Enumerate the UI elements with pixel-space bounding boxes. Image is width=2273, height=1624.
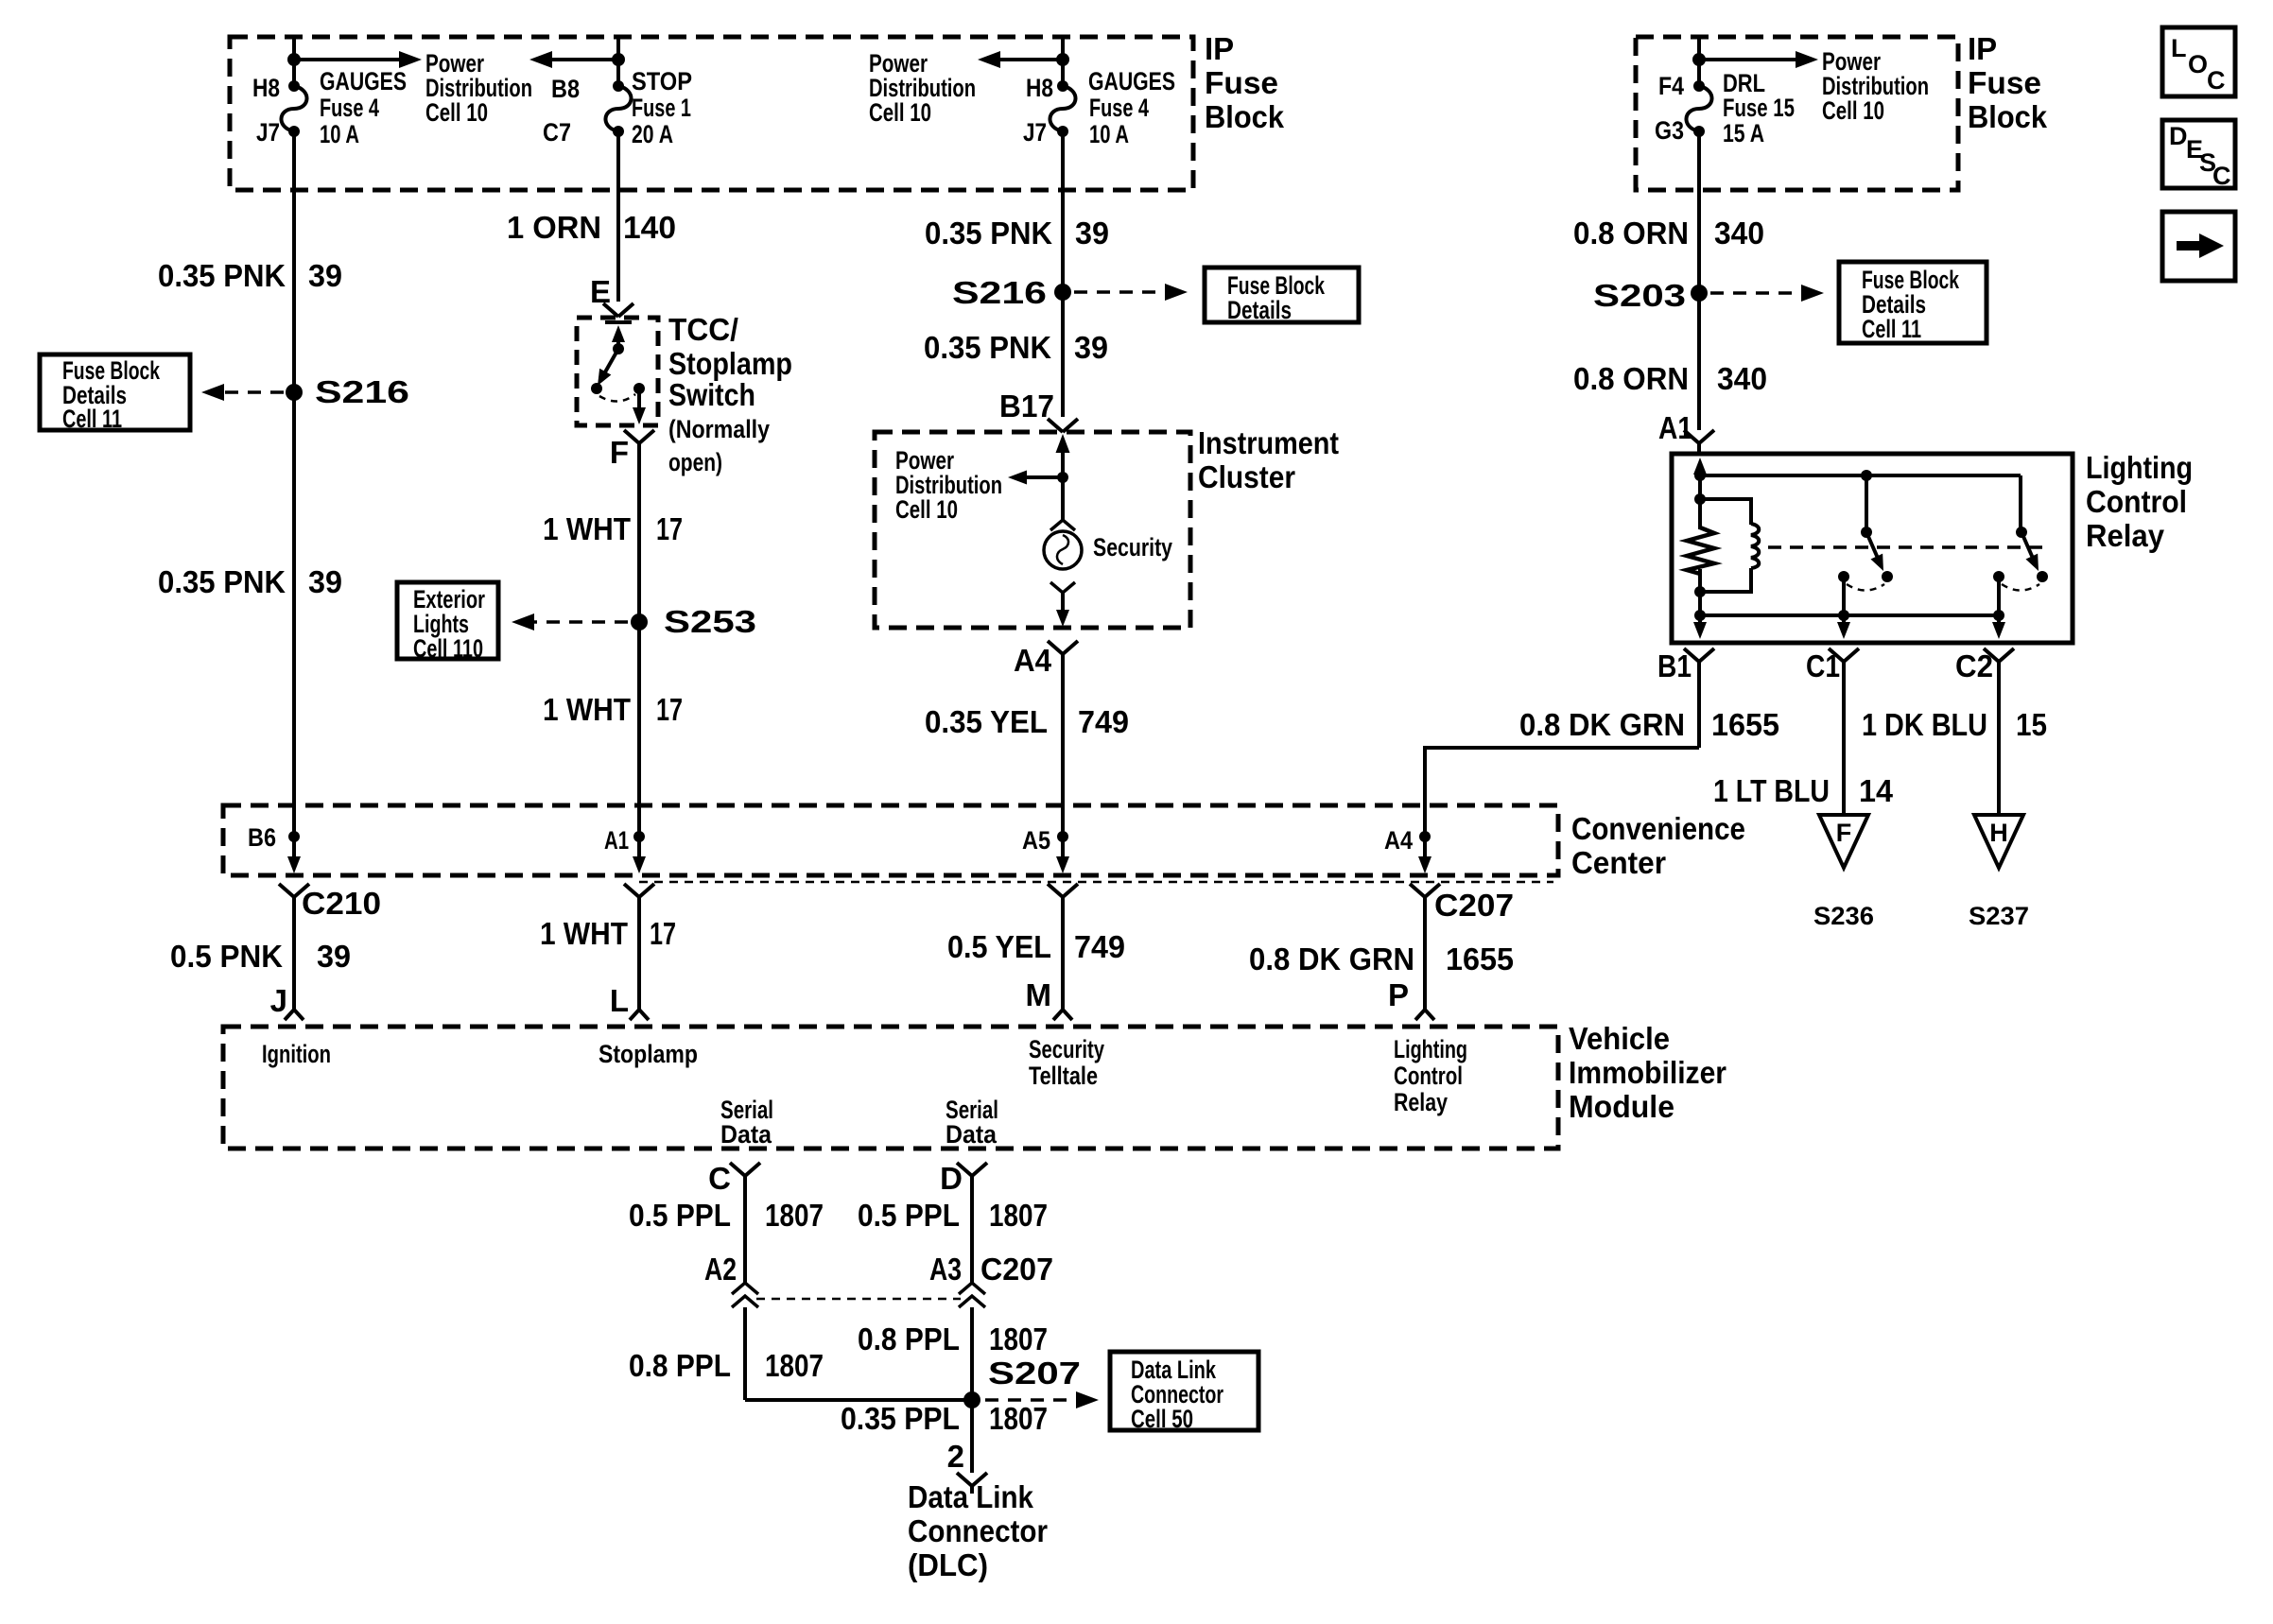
svg-text:TCC/: TCC/ xyxy=(668,312,738,347)
wire C2 1 DK BLU 15 to S237 xyxy=(1997,662,2001,815)
svg-text:M: M xyxy=(1026,977,1052,1012)
fuse GAUGES Fuse 4 10A (left) pins H8/J7 xyxy=(288,80,300,92)
switch output arrow down xyxy=(637,389,641,417)
box Fuse Block Details (mid) xyxy=(1205,268,1359,322)
svg-text:Fuse 1: Fuse 1 xyxy=(632,94,691,122)
switch right contact dot xyxy=(633,383,645,394)
svg-text:0.35 PNK: 0.35 PNK xyxy=(158,258,286,293)
svg-text:A2: A2 xyxy=(704,1252,737,1287)
svg-text:B1: B1 xyxy=(1657,648,1692,683)
svg-text:15: 15 xyxy=(2016,707,2047,742)
svg-text:0.35 PNK: 0.35 PNK xyxy=(158,564,286,599)
Instrument Cluster dashed box xyxy=(875,432,1190,628)
svg-text:C: C xyxy=(2207,66,2226,95)
node W4 top junction xyxy=(1692,53,1706,66)
svg-text:17: 17 xyxy=(656,692,683,727)
svg-text:L: L xyxy=(610,983,629,1018)
svg-text:0.8 ORN: 0.8 ORN xyxy=(1573,361,1689,396)
svg-text:1 ORN: 1 ORN xyxy=(507,210,601,245)
Vehicle Immobilizer Module dashed box xyxy=(223,1027,1558,1149)
svg-text:0.8 PPL: 0.8 PPL xyxy=(629,1348,731,1383)
svg-text:1655: 1655 xyxy=(1446,942,1514,976)
svg-text:(DLC): (DLC) xyxy=(908,1547,988,1582)
relay left wire xyxy=(1698,473,1702,529)
svg-text:0.8 ORN: 0.8 ORN xyxy=(1573,216,1689,251)
svg-text:Block: Block xyxy=(1205,99,1285,134)
wire W2 1 ORN 140 segment xyxy=(616,131,620,302)
relay output arrows down xyxy=(1698,615,1702,631)
connector C1 xyxy=(1829,648,1859,662)
svg-text:39: 39 xyxy=(1075,216,1109,251)
wire W2 top segment xyxy=(616,37,620,86)
svg-text:0.35 PNK: 0.35 PNK xyxy=(925,216,1052,251)
wire arrow to Power Distribution Cell 10 (W4) xyxy=(1699,58,1797,61)
svg-text:15 A: 15 A xyxy=(1723,119,1764,147)
wire W3 0.35 PNK segment xyxy=(1061,131,1065,417)
box Fuse Block Details Cell 11 (right) xyxy=(1839,262,1987,343)
svg-text:Fuse 4: Fuse 4 xyxy=(320,94,379,122)
svg-text:Vehicle: Vehicle xyxy=(1569,1021,1670,1056)
svg-text:C1: C1 xyxy=(1806,648,1840,683)
wire W3 top segment xyxy=(1061,37,1065,86)
svg-text:Lighting: Lighting xyxy=(1394,1035,1467,1063)
svg-text:F: F xyxy=(610,435,629,470)
svg-text:C207: C207 xyxy=(980,1252,1053,1287)
coil branch xyxy=(1700,499,1751,525)
svg-text:Cell 10: Cell 10 xyxy=(425,98,488,127)
svg-text:Instrument: Instrument xyxy=(1198,425,1339,460)
svg-text:Connector: Connector xyxy=(908,1513,1048,1548)
svg-text:17: 17 xyxy=(656,511,683,546)
svg-text:0.5 YEL: 0.5 YEL xyxy=(947,929,1051,964)
svg-text:Telltale: Telltale xyxy=(1029,1062,1098,1090)
relay switch2 pivot xyxy=(2016,527,2027,538)
svg-text:Stoplamp: Stoplamp xyxy=(599,1040,698,1068)
resistor (relay winding suppression) xyxy=(1687,527,1714,574)
connector line C207 thin dashed xyxy=(639,881,1553,884)
svg-text:A4: A4 xyxy=(1014,643,1052,678)
node W3 top junction xyxy=(1056,53,1069,66)
connector A4 xyxy=(1048,641,1078,654)
wire W1 through convenience center pin B6 xyxy=(292,805,296,866)
wire W4 top segment xyxy=(1697,37,1701,86)
svg-text:Fuse 4: Fuse 4 xyxy=(1089,94,1149,122)
svg-text:Control: Control xyxy=(2086,484,2187,519)
TCC/Stoplamp Switch dashed box xyxy=(577,318,658,425)
svg-text:39: 39 xyxy=(308,258,342,293)
svg-text:STOP: STOP xyxy=(632,67,692,95)
wire W2 pin A1 xyxy=(637,805,641,866)
connector A2 double chevron xyxy=(732,1283,758,1294)
Convenience Center dashed box xyxy=(223,805,1558,875)
svg-text:B8: B8 xyxy=(551,75,580,103)
connector F xyxy=(624,430,654,443)
switch arrow up to contact xyxy=(616,332,620,349)
switch top contact bar xyxy=(605,320,632,324)
svg-text:(Normally: (Normally xyxy=(668,415,770,443)
connector M chevron xyxy=(1048,884,1078,897)
svg-text:B6: B6 xyxy=(248,823,276,852)
svg-text:IP: IP xyxy=(1205,31,1234,66)
svg-text:Relay: Relay xyxy=(1394,1088,1448,1116)
svg-text:Data Link: Data Link xyxy=(908,1479,1034,1514)
svg-text:S253: S253 xyxy=(664,604,756,639)
switch travel dashed arc xyxy=(599,394,635,402)
svg-text:J7: J7 xyxy=(1023,118,1047,147)
relay input arrow up xyxy=(1693,458,1707,475)
splice S253 on W2 xyxy=(631,613,648,631)
wire W1 from fuse to convenience center xyxy=(292,131,296,805)
svg-text:749: 749 xyxy=(1078,704,1129,739)
svg-text:0.8 DK GRN: 0.8 DK GRN xyxy=(1249,942,1414,976)
svg-text:open): open) xyxy=(668,448,722,476)
svg-text:Cell 50: Cell 50 xyxy=(1131,1405,1193,1433)
connector P chevron xyxy=(1410,884,1440,897)
svg-text:1807: 1807 xyxy=(989,1198,1048,1233)
svg-text:GAUGES: GAUGES xyxy=(1088,67,1175,95)
svg-text:C: C xyxy=(708,1161,731,1196)
arrow up into B17 inside cluster xyxy=(1061,441,1065,477)
svg-text:Security: Security xyxy=(1093,533,1172,561)
connector A3 double chevron xyxy=(959,1283,985,1294)
svg-text:140: 140 xyxy=(623,210,676,245)
svg-text:39: 39 xyxy=(308,564,342,599)
switch blade xyxy=(602,349,618,377)
svg-text:D: D xyxy=(2169,122,2188,150)
svg-text:340: 340 xyxy=(1714,216,1764,251)
LOC legend box xyxy=(2162,27,2235,96)
svg-text:C2: C2 xyxy=(1955,648,1993,683)
Security telltale lamp xyxy=(1044,531,1082,569)
svg-text:Cell 10: Cell 10 xyxy=(869,98,931,127)
svg-text:C7: C7 xyxy=(543,118,571,147)
node W1 top junction xyxy=(287,53,301,66)
dashed arrow S253 to Exterior Lights xyxy=(526,620,628,624)
fuse GAUGES Fuse 4 10A (mid) pins H8/J7 xyxy=(1057,80,1068,92)
IP Fuse Block (left) dashed box xyxy=(230,37,1193,190)
svg-text:G3: G3 xyxy=(1655,116,1684,145)
svg-text:S236: S236 xyxy=(1813,902,1874,930)
svg-text:H: H xyxy=(1989,819,2008,847)
svg-text:0.8 DK GRN: 0.8 DK GRN xyxy=(1519,707,1685,742)
switch left contact dot xyxy=(591,383,602,394)
wire W3 pin A5 xyxy=(1061,805,1065,866)
svg-text:749: 749 xyxy=(1074,929,1125,964)
wire arrow to Power Distribution Cell 10 (W3) xyxy=(993,58,1063,61)
svg-text:1 WHT: 1 WHT xyxy=(543,692,631,727)
svg-text:J7: J7 xyxy=(256,118,280,147)
splice S207 xyxy=(963,1391,980,1408)
ground-style triangle H (S237) xyxy=(1974,815,2023,868)
arrow down out of cluster xyxy=(1061,593,1065,619)
wire D down to DLC xyxy=(970,1307,974,1473)
arrow left to Power Distribution (cluster) xyxy=(1023,475,1063,479)
svg-text:GAUGES: GAUGES xyxy=(320,67,407,95)
fuse DRL Fuse 15 15A pins F4/G3 xyxy=(1693,80,1705,92)
svg-text:B17: B17 xyxy=(999,389,1054,423)
svg-text:1 WHT: 1 WHT xyxy=(543,511,631,546)
svg-text:Module: Module xyxy=(1569,1089,1674,1124)
Lighting Control Relay box xyxy=(1672,454,2073,643)
svg-text:1807: 1807 xyxy=(765,1198,824,1233)
svg-text:IP: IP xyxy=(1968,31,1997,66)
dashed connector line A2-A3 xyxy=(756,1298,961,1301)
node cluster junction xyxy=(1057,472,1068,483)
box Data Link Connector Cell 50 xyxy=(1110,1352,1258,1430)
svg-text:D: D xyxy=(940,1161,963,1196)
svg-text:20 A: 20 A xyxy=(632,120,673,148)
connector C xyxy=(730,1163,760,1176)
fuse STOP Fuse 1 20A pins B8/C7 xyxy=(613,80,624,92)
svg-text:0.35 YEL: 0.35 YEL xyxy=(925,704,1048,739)
wire B1 elbow to A4 xyxy=(1425,748,1699,805)
svg-text:H8: H8 xyxy=(252,74,280,102)
svg-text:Convenience: Convenience xyxy=(1571,811,1745,846)
svg-text:0.5 PPL: 0.5 PPL xyxy=(629,1198,731,1233)
svg-text:Fuse: Fuse xyxy=(1968,65,2041,100)
svg-text:S237: S237 xyxy=(1969,902,2029,930)
svg-text:Security: Security xyxy=(1029,1035,1104,1063)
relay switch1 blade xyxy=(1866,532,1880,562)
svg-text:Stoplamp: Stoplamp xyxy=(668,346,792,381)
svg-text:39: 39 xyxy=(317,939,351,974)
splice S216 on W3 xyxy=(1054,284,1071,301)
svg-text:A5: A5 xyxy=(1022,826,1050,855)
svg-text:A1: A1 xyxy=(1658,410,1692,445)
svg-text:14: 14 xyxy=(1859,773,1894,808)
svg-text:Data: Data xyxy=(720,1120,772,1149)
svg-text:1655: 1655 xyxy=(1711,707,1779,742)
svg-text:Cluster: Cluster xyxy=(1198,459,1295,494)
svg-text:0.8 PPL: 0.8 PPL xyxy=(858,1322,960,1356)
relay switch2 contacts xyxy=(1993,571,2004,582)
wire W2 1 WHT 17 segment to convenience center xyxy=(637,443,641,805)
dashed arrow S216 to Fuse Block Details (mid) xyxy=(1074,290,1172,294)
svg-text:340: 340 xyxy=(1717,361,1767,396)
svg-text:39: 39 xyxy=(1074,330,1108,365)
connector 2 (DLC) xyxy=(957,1473,987,1486)
lamp bottom chevron xyxy=(1050,582,1075,593)
svg-text:C207: C207 xyxy=(1434,888,1514,923)
svg-text:Cell 10: Cell 10 xyxy=(895,495,958,524)
relay switch1 output xyxy=(1842,577,1846,615)
wire arrow to Power Distribution Cell 10 (W2) xyxy=(545,58,618,61)
svg-text:1807: 1807 xyxy=(989,1322,1048,1356)
svg-text:1 LT BLU: 1 LT BLU xyxy=(1713,773,1830,808)
svg-text:Details: Details xyxy=(1227,296,1292,324)
svg-text:0.35 PPL: 0.35 PPL xyxy=(841,1401,960,1436)
svg-text:Data: Data xyxy=(946,1120,998,1149)
svg-text:Control: Control xyxy=(1394,1062,1463,1090)
svg-text:Cell 10: Cell 10 xyxy=(1822,96,1884,125)
wire B1 0.8 DK GRN 1655 xyxy=(1697,662,1701,748)
wire C elbow joining S207 xyxy=(745,1398,972,1402)
wire arrow to Power Distribution Cell 10 (W1) xyxy=(294,58,401,61)
connector C210 xyxy=(279,884,309,897)
svg-text:L: L xyxy=(2171,34,2187,62)
svg-text:A4: A4 xyxy=(1384,826,1413,855)
svg-text:Block: Block xyxy=(1968,99,2048,134)
svg-text:O: O xyxy=(2188,50,2208,78)
wire W1 top segment xyxy=(292,37,296,86)
relay switch2 blade xyxy=(2021,532,2035,562)
DESC legend box xyxy=(2162,120,2235,188)
wire relay pin A4 xyxy=(1423,805,1427,866)
svg-text:Cell 110: Cell 110 xyxy=(413,634,483,663)
svg-text:F: F xyxy=(1836,819,1852,847)
svg-text:1 DK BLU: 1 DK BLU xyxy=(1862,707,1987,742)
svg-text:A1: A1 xyxy=(604,826,629,855)
ground-style triangle F (S236) xyxy=(1819,815,1868,868)
svg-text:Immobilizer: Immobilizer xyxy=(1569,1055,1726,1090)
svg-text:Fuse: Fuse xyxy=(1205,65,1278,100)
svg-text:S216: S216 xyxy=(315,374,409,409)
dashed arrow S203 to Fuse Block Details (right) xyxy=(1710,291,1809,295)
dashed arrow S216 to Fuse Block Details xyxy=(216,390,284,394)
lamp top chevron xyxy=(1050,520,1075,530)
svg-text:0.5 PPL: 0.5 PPL xyxy=(858,1198,960,1233)
svg-text:S203: S203 xyxy=(1593,278,1686,313)
svg-text:C: C xyxy=(2212,162,2231,190)
svg-text:S207: S207 xyxy=(988,1356,1081,1391)
svg-text:0.5 PNK: 0.5 PNK xyxy=(170,939,283,974)
svg-text:S216: S216 xyxy=(952,275,1047,310)
relay actuation dashed line xyxy=(1768,545,2042,549)
svg-text:Fuse 15: Fuse 15 xyxy=(1723,94,1795,122)
connector D xyxy=(957,1163,987,1176)
splice S203 xyxy=(1691,285,1708,302)
connector B1 xyxy=(1684,648,1714,662)
svg-text:A3: A3 xyxy=(929,1252,962,1287)
svg-text:Switch: Switch xyxy=(668,377,755,412)
node switch1 stem xyxy=(1861,470,1872,481)
wire C down to junction xyxy=(743,1307,747,1400)
connector C2 xyxy=(1984,648,2014,662)
svg-text:0.35 PNK: 0.35 PNK xyxy=(924,330,1051,365)
IP Fuse Block (right) dashed box xyxy=(1636,37,1958,190)
svg-text:E: E xyxy=(590,274,611,309)
svg-text:Relay: Relay xyxy=(2086,518,2165,553)
box Exterior Lights Cell 110 xyxy=(397,582,498,659)
svg-text:10 A: 10 A xyxy=(320,120,359,148)
svg-text:Ignition: Ignition xyxy=(262,1040,331,1068)
wire W4 0.8 ORN segment xyxy=(1697,131,1701,430)
svg-text:2: 2 xyxy=(947,1439,964,1474)
svg-text:17: 17 xyxy=(650,916,676,951)
wire to security lamp xyxy=(1061,477,1065,522)
relay top rail xyxy=(1700,474,2021,477)
wire C1 1 LT BLU 14 to S236 xyxy=(1842,662,1846,815)
switch pivot dot xyxy=(613,343,624,354)
relay bottom rail xyxy=(1700,613,1999,617)
relay switch1 pivot xyxy=(1861,527,1872,538)
svg-text:1807: 1807 xyxy=(765,1348,824,1383)
svg-text:F4: F4 xyxy=(1658,72,1684,100)
wire W3 0.35 YEL segment xyxy=(1061,654,1065,805)
arrow legend box xyxy=(2162,212,2235,281)
node W2 top junction xyxy=(612,53,625,66)
relay switch2 output xyxy=(1997,577,2001,615)
relay switch1 contacts xyxy=(1838,571,1849,582)
svg-text:Lighting: Lighting xyxy=(2086,450,2193,485)
svg-text:Center: Center xyxy=(1571,845,1666,880)
svg-text:10 A: 10 A xyxy=(1089,120,1129,148)
svg-text:1 WHT: 1 WHT xyxy=(540,916,628,951)
splice S216 on W1 xyxy=(286,384,303,401)
svg-text:Cell 11: Cell 11 xyxy=(1862,315,1921,343)
svg-text:P: P xyxy=(1388,977,1409,1012)
svg-text:J: J xyxy=(270,983,287,1018)
relay right stem to switch2 xyxy=(2019,475,2022,532)
svg-text:Cell 11: Cell 11 xyxy=(62,405,122,433)
dashed arrow S207 to Data Link Connector box xyxy=(985,1398,1084,1402)
svg-text:C210: C210 xyxy=(302,886,381,921)
connector L chevron xyxy=(624,884,654,897)
box Fuse Block Details Cell 11 (left) xyxy=(40,354,190,430)
svg-text:H8: H8 xyxy=(1026,74,1053,102)
svg-text:1807: 1807 xyxy=(989,1401,1048,1436)
